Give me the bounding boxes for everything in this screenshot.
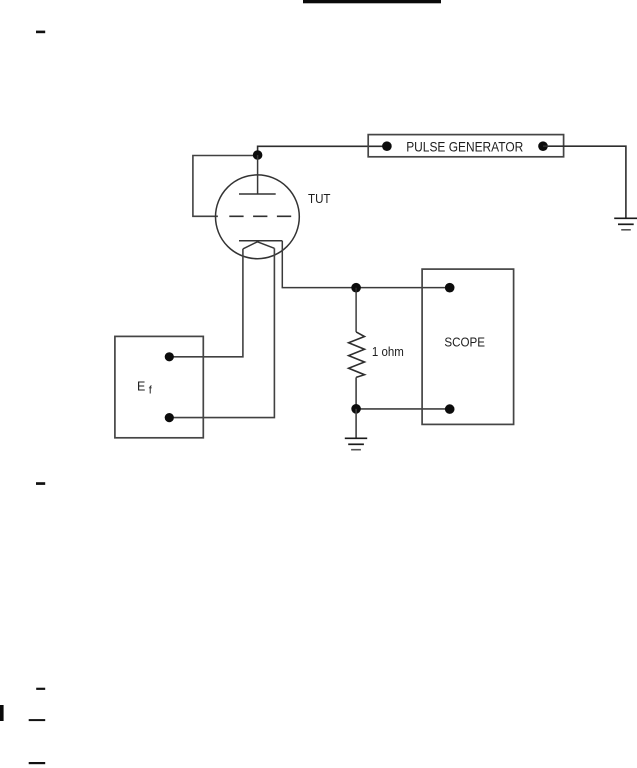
svg-text:TUT: TUT [308,191,331,206]
text dash (left margin, long) [29,719,46,721]
node: pulse generator output terminal [382,141,392,151]
ground G1 (pulse generator, right edge) [614,218,637,230]
tube U1 heater filament (inverted V) [243,242,275,249]
box: pulse generator [368,135,563,157]
wire: node B down to resistor R1 [355,288,357,332]
tube U1 envelope (TUT) [216,175,300,259]
node: pulse generator return terminal [538,141,548,151]
node: Ef bottom terminal [165,413,174,422]
text dash (left margin, mid page) [36,482,45,485]
wire: heater right lead down to Ef bottom terminal [169,248,274,417]
node: Ef top terminal [165,352,174,361]
text dash (top left margin) [36,31,45,34]
wire: node B to scope input terminal [356,287,450,289]
box: scope [422,269,513,424]
tube U1 cathode [239,240,282,242]
wire: heater left lead down to Ef top terminal [169,249,243,357]
wire: pulse generator return right and down to ground G1 [543,146,626,218]
tube U1 plate lead [257,155,259,194]
wire: resistor R1 to node C [355,377,357,408]
wire: grid feedback bracket (junction left, down, to grid) [193,156,258,217]
wire: plate junction up and right to pulse generator input [258,146,387,155]
tube U1 plate [239,193,276,195]
box: Ef filament supply [115,336,203,437]
svg-text:E: E [137,380,145,394]
wire: cathode lead down and right to node B [282,241,356,288]
svg-text:PULSE GENERATOR: PULSE GENERATOR [406,139,523,155]
wire: node C to scope ground terminal [356,408,450,410]
node A: plate/pulse junction dot [253,150,263,160]
svg-text:f: f [149,385,153,397]
wire: node C down to ground G2 [355,409,357,439]
title underline (cut off at page top) [303,0,441,3]
svg-text:1 ohm: 1 ohm [372,344,404,359]
text dash (bottom left margin) [29,762,46,764]
text dash (left margin, lower) [36,688,45,690]
ground G2 (below resistor) [345,438,367,449]
node C: resistor/scope-ground junction dot [351,404,361,414]
tube U1 grid (dashed) [229,215,291,217]
black block (left page edge) [0,705,4,721]
node: scope ground terminal [445,404,455,414]
node B: cathode/resistor/scope junction dot [351,283,361,293]
svg-text:SCOPE: SCOPE [444,335,485,350]
resistor R1 (1 ohm) zigzag [349,332,365,378]
node: scope input terminal [445,283,455,293]
